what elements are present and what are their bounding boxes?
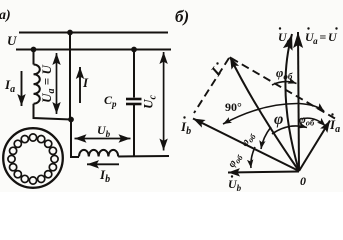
svg-text:I: I [82, 75, 89, 90]
vector Ua = U (vertical) [298, 32, 299, 171]
vector Ub [228, 172, 299, 173]
node: junction dot at (71,119.5) [68, 117, 74, 123]
motor: stator slot circles [8, 134, 58, 184]
node: junction dot on line 2 at x=33.5 [31, 47, 37, 53]
voltage arrow Ub (double headed) [75, 138, 131, 140]
vector Ib [193, 119, 299, 172]
svg-text:б): б) [175, 7, 189, 26]
construction: dashed side from I tip to Ia tip [231, 58, 335, 119]
node: junction dot on line 1 at x=70 [67, 30, 73, 36]
vector I (total current) [230, 57, 299, 171]
svg-text:0: 0 [300, 174, 306, 188]
current arrow Ib (left) [87, 163, 119, 165]
svg-text:U: U [7, 33, 17, 48]
inductor: winding A (main winding, vertical coil) [34, 65, 40, 104]
voltage arrow Uc (double headed) [163, 52, 165, 151]
wire: from lower junction down and right to winding B [71, 120, 79, 158]
arc: phi_ob between Ua and Ia (right) [301, 118, 326, 126]
arc: phi_ob between I and Ib [261, 127, 271, 149]
current arrow I (up) [79, 67, 81, 103]
vector Ia [299, 121, 330, 172]
wire: supply line 2 (lower bus) [16, 49, 171, 51]
capacitor Cp plates [126, 98, 142, 101]
arc: phi between I and Ua [272, 126, 307, 134]
vector Uc [285, 34, 299, 171]
wire: line 2 dot down to winding A [33, 50, 35, 65]
voltage arrow Ua (double headed) [56, 53, 58, 114]
arc: phi_ob between Uc and Ua (upper) [272, 82, 297, 85]
svg-text:φ: φ [274, 111, 283, 128]
construction: dashed side from I tip to Ib tip [194, 58, 229, 113]
arc: 90 degrees between Ib and Ia [223, 103, 324, 124]
inductor: winding B (auxiliary winding, horizontal coil) [79, 150, 118, 157]
svg-text:а): а) [0, 8, 11, 23]
wire: winding A bottom to lower junction [34, 104, 72, 120]
node: junction dot on line 2 at x=134 [131, 47, 137, 53]
wire: winding B right end to capacitor node and Uc reference stub [118, 155, 169, 158]
wire: from line-1 dot down through line 2 to lower junction [69, 33, 71, 120]
wire: supply line 1 (top bus) [19, 32, 168, 34]
motor: rotor circle [3, 128, 63, 188]
svg-text:90°: 90° [225, 100, 242, 114]
svg-text:Ua = U: Ua = U [305, 30, 338, 46]
wire: line 2 dot down to capacitor [133, 50, 135, 98]
arc: phi_ob between Ub and Ib [251, 147, 255, 168]
wire: capacitor bottom down to winding B node [133, 105, 135, 156]
current arrow Ia (down) [21, 71, 23, 106]
